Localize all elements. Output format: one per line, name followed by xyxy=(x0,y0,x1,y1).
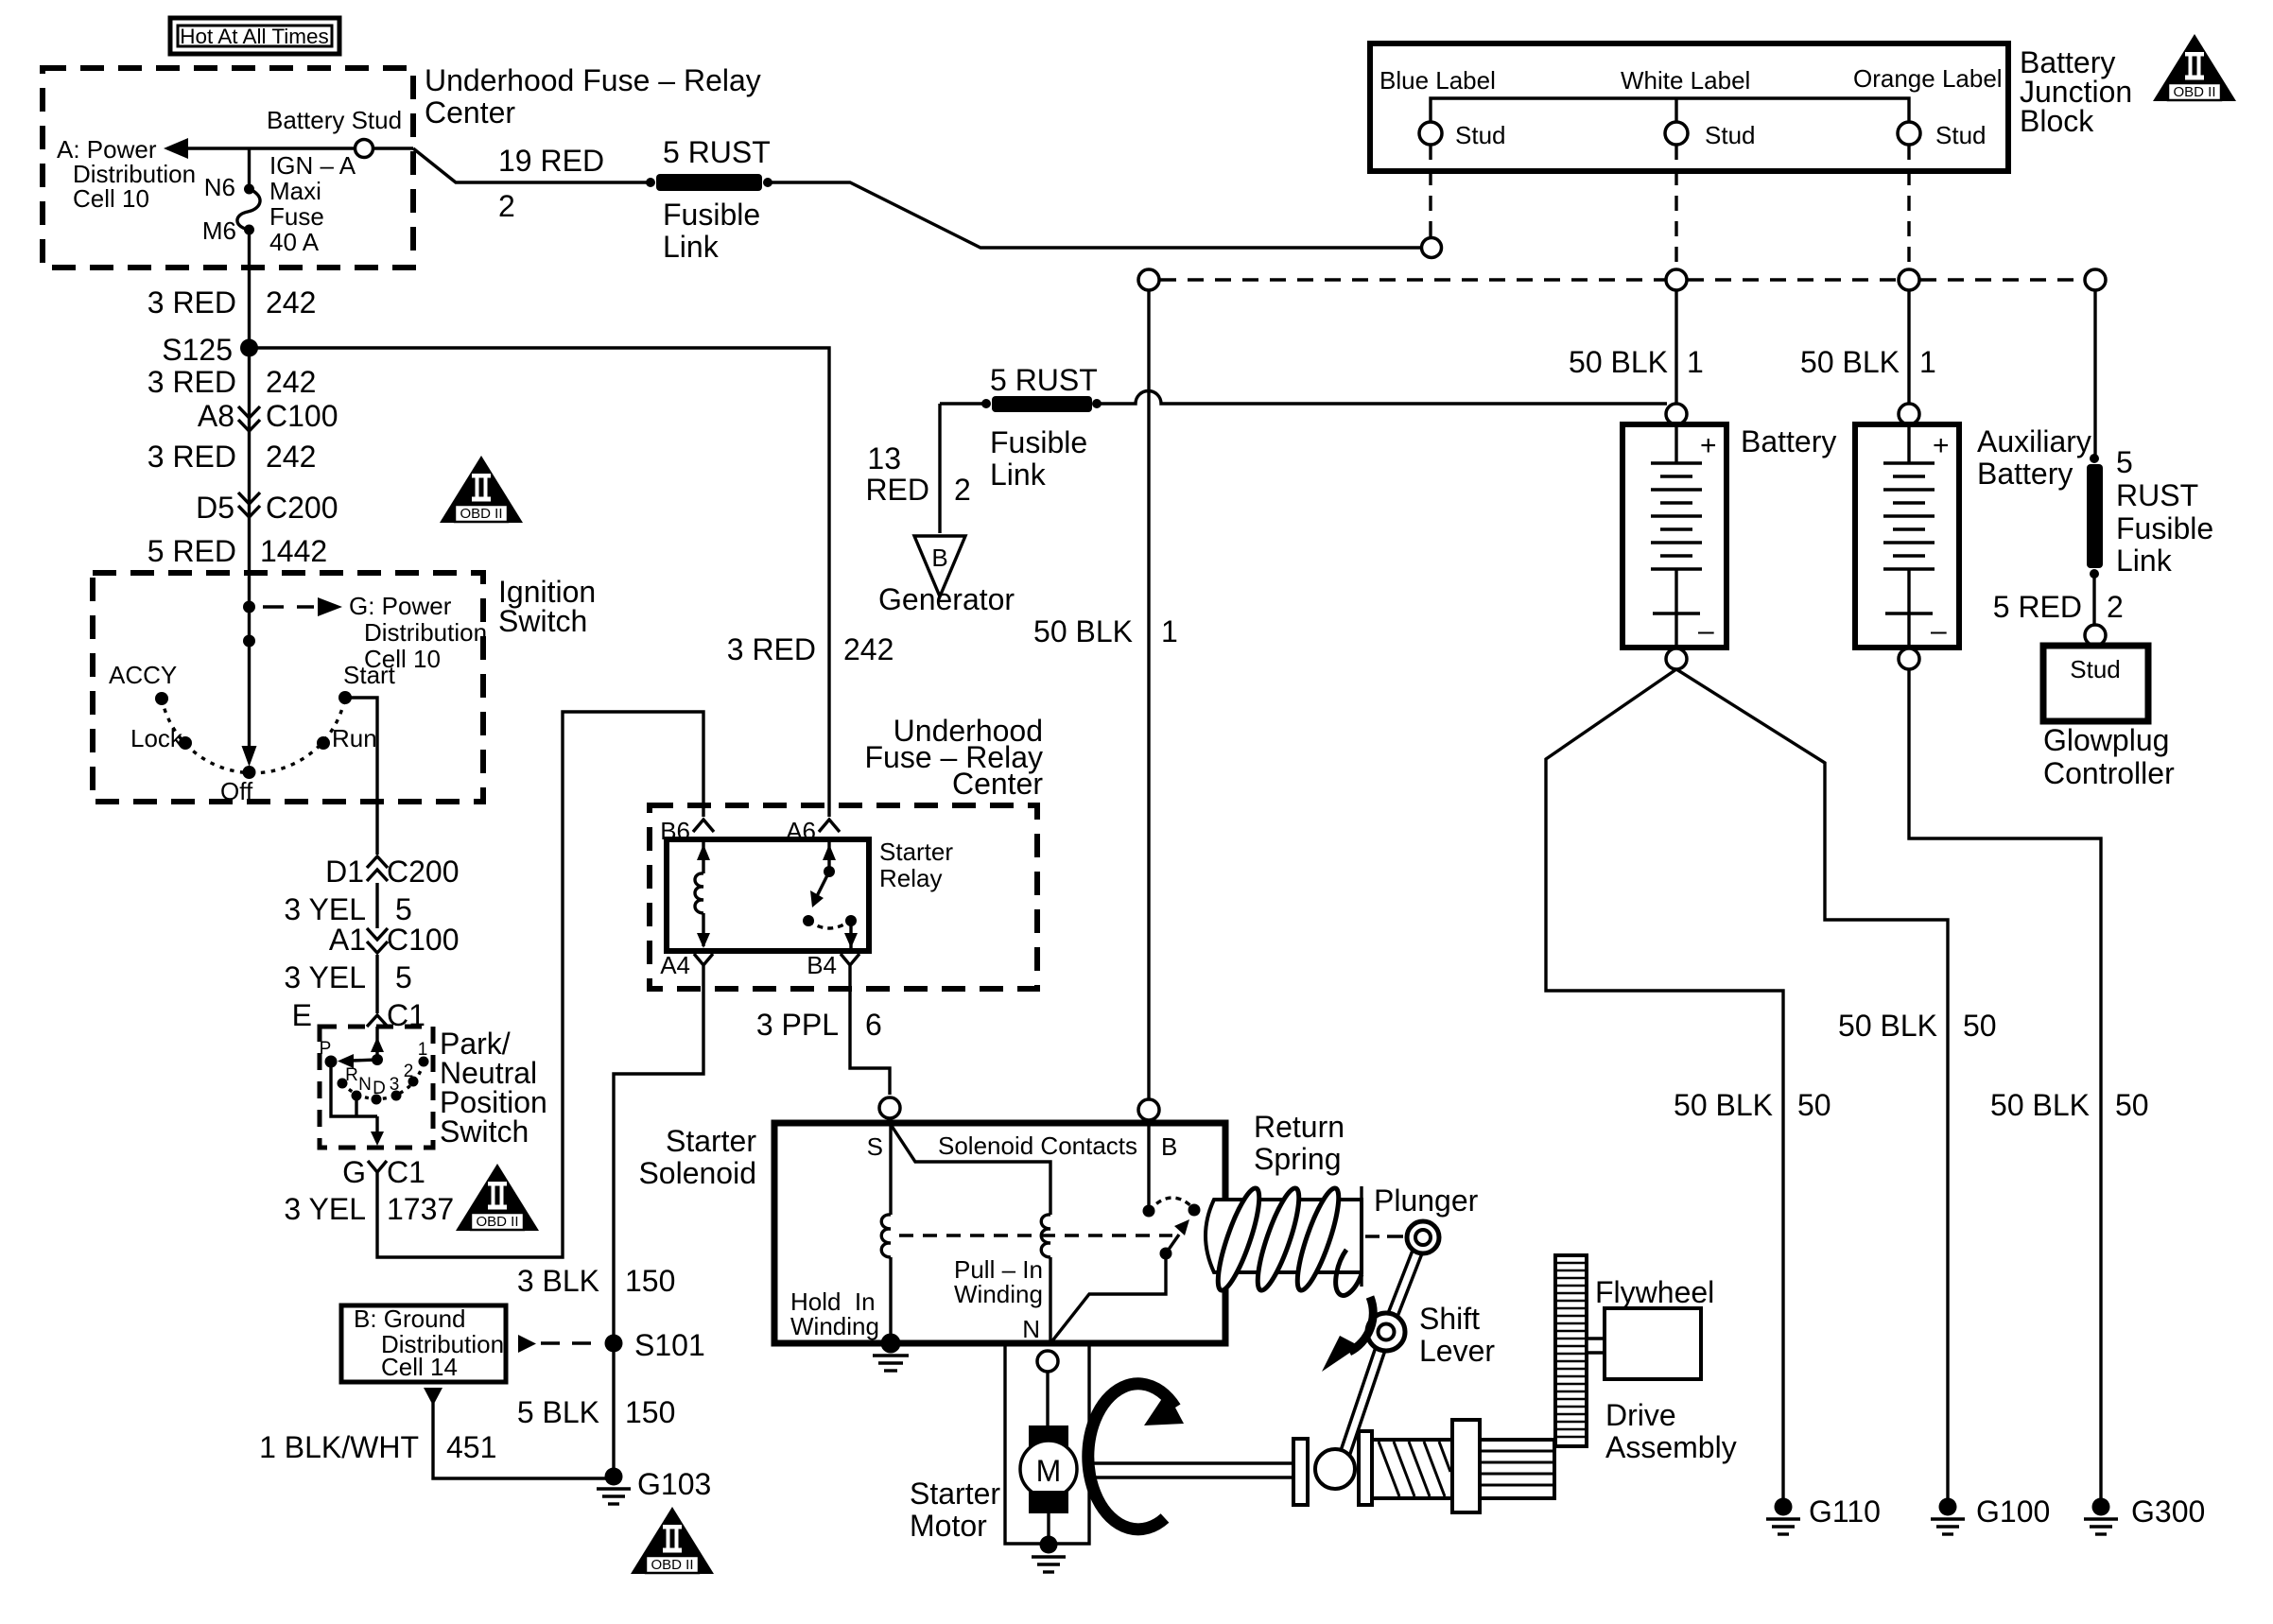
svg-text:3 BLK: 3 BLK xyxy=(517,1264,599,1298)
svg-text:Link: Link xyxy=(663,230,720,264)
shaft collar xyxy=(1359,1431,1372,1505)
wire: generator branch riser xyxy=(938,404,941,533)
connector D5 C200 (double chevron down) xyxy=(238,492,260,517)
return spring coils xyxy=(1210,1184,1362,1295)
svg-text:Glowplug: Glowplug xyxy=(2043,723,2169,757)
connector A6 (chevron up) xyxy=(819,820,840,832)
node 1 xyxy=(419,1057,429,1067)
node S101 xyxy=(605,1335,623,1353)
svg-text:Stud: Stud xyxy=(1705,121,1756,149)
connector E C1 (chevron up) xyxy=(367,1015,388,1027)
box: Battery Junction Block xyxy=(1370,43,2008,171)
svg-text:Stud: Stud xyxy=(2070,655,2121,683)
svg-text:Run: Run xyxy=(332,724,377,752)
svg-text:Flywheel: Flywheel xyxy=(1595,1275,1714,1309)
contact dot left xyxy=(1143,1205,1155,1218)
svg-text:Relay: Relay xyxy=(879,864,942,892)
svg-text:5 RUST: 5 RUST xyxy=(663,135,771,169)
terminal circle S xyxy=(879,1097,900,1118)
svg-text:242: 242 xyxy=(266,285,316,320)
svg-text:Battery: Battery xyxy=(1977,457,2073,491)
junction circle: blue stud to 19 RED xyxy=(1422,238,1442,258)
dashed box: Underhood Fuse-Relay Center (relay) xyxy=(650,805,1037,989)
battery (main) xyxy=(1622,404,1726,669)
node: PN common dot xyxy=(372,1054,383,1065)
solenoid internal ground xyxy=(873,1334,909,1372)
junction circle: orange xyxy=(1899,269,1919,290)
ground G100 xyxy=(1931,1498,1965,1535)
svg-text:40 A: 40 A xyxy=(269,228,320,256)
node 3 xyxy=(391,1091,402,1101)
svg-text:Lock: Lock xyxy=(130,724,183,752)
wire: battery stud to A arrow xyxy=(186,147,355,149)
shaft flange xyxy=(1293,1439,1308,1505)
dashed cable: orange to aux fuse xyxy=(1920,278,2084,281)
svg-text:S101: S101 xyxy=(634,1328,705,1362)
node Off xyxy=(243,766,256,779)
svg-text:Drive: Drive xyxy=(1605,1398,1676,1432)
svg-text:Winding: Winding xyxy=(790,1312,879,1340)
starter solenoid box xyxy=(774,1123,1225,1343)
wire: S125 to A6 xyxy=(250,348,830,817)
svg-text:C200: C200 xyxy=(387,855,460,889)
svg-text:3 PPL: 3 PPL xyxy=(756,1008,839,1042)
node Run xyxy=(317,736,330,750)
fusible link F1 dots xyxy=(646,178,655,187)
svg-text:G: G xyxy=(342,1155,366,1189)
node Lock xyxy=(179,736,192,750)
svg-text:P: P xyxy=(320,1039,332,1059)
dotted arc of ignition positions xyxy=(162,698,345,773)
stud circle (orange) xyxy=(1898,122,1920,145)
svg-text:Fuse: Fuse xyxy=(269,202,324,231)
svg-text:Spring: Spring xyxy=(1254,1142,1342,1176)
svg-text:Start: Start xyxy=(343,661,396,689)
node D xyxy=(372,1095,382,1105)
wire: N to motor xyxy=(1046,1372,1049,1426)
svg-text:3 YEL: 3 YEL xyxy=(284,960,366,994)
splined shaft xyxy=(1480,1440,1554,1498)
rotation arrow xyxy=(1088,1384,1184,1529)
svg-text:1737: 1737 xyxy=(387,1192,454,1226)
svg-text:C200: C200 xyxy=(266,491,338,525)
svg-text:5 RED: 5 RED xyxy=(147,534,236,568)
label: 5 RUST Fusible Link (F2) xyxy=(990,363,1098,492)
label: IGN-A Maxi Fuse 40 A xyxy=(269,151,356,256)
svg-text:242: 242 xyxy=(843,632,894,666)
node M6 xyxy=(244,225,254,235)
node N xyxy=(352,1091,362,1101)
svg-text:G103: G103 xyxy=(637,1467,711,1501)
svg-text:OBD II: OBD II xyxy=(651,1557,693,1573)
svg-text:RUST: RUST xyxy=(2116,478,2198,512)
svg-text:Link: Link xyxy=(990,458,1047,492)
wire: battery negative V-split right branch to G100 xyxy=(1676,669,1948,1498)
node S125 xyxy=(240,339,258,357)
battery (auxiliary) xyxy=(1855,404,1959,669)
terminal circle N xyxy=(1037,1351,1058,1372)
fusible link F3 body (vertical) xyxy=(2087,464,2103,568)
wire: G C1 down right and up to relay B6 xyxy=(377,712,703,1257)
svg-text:1: 1 xyxy=(1687,345,1704,379)
label: 5 RUST Fusible Link (F1) xyxy=(663,135,771,264)
arrow below ground cell box xyxy=(424,1388,442,1406)
svg-text:Generator: Generator xyxy=(878,582,1015,616)
stud circle (white) xyxy=(1665,122,1688,145)
svg-text:Block: Block xyxy=(2020,104,2094,138)
shift lever xyxy=(1342,1221,1439,1463)
dashed lead: blue stud xyxy=(1429,145,1431,236)
node: ignition feed dot 1 xyxy=(243,601,255,613)
starter motor M xyxy=(1020,1425,1077,1536)
svg-text:Shift: Shift xyxy=(1419,1302,1480,1336)
stud circle (blue) xyxy=(1419,122,1442,145)
plunger end plate xyxy=(1360,1186,1362,1287)
svg-text:2: 2 xyxy=(2107,590,2124,624)
svg-text:Stud: Stud xyxy=(1455,121,1506,149)
svg-text:C100: C100 xyxy=(266,399,338,433)
svg-text:OBD II: OBD II xyxy=(2173,84,2215,100)
contact dot right xyxy=(1189,1204,1201,1217)
dashed cable: white to orange xyxy=(1688,278,1898,281)
connector A4 (Y) xyxy=(694,954,713,977)
wire: B terminal to fixed contact xyxy=(1147,1120,1150,1205)
OBD II triangle (top right) xyxy=(2153,34,2236,101)
svg-text:5: 5 xyxy=(395,960,412,994)
fusible link F1 body xyxy=(656,174,762,191)
svg-text:19 RED: 19 RED xyxy=(498,144,604,178)
wire: battery negative V-split left branch to G110 xyxy=(1546,669,1783,1498)
svg-text:Starter: Starter xyxy=(879,838,953,866)
svg-text:3: 3 xyxy=(390,1075,400,1095)
wire: aux battery negative to G300 xyxy=(1909,669,2101,1498)
svg-text:Off: Off xyxy=(220,777,253,805)
hatched drive screw xyxy=(1372,1440,1452,1498)
label: A Power Distribution Cell 10 xyxy=(57,135,196,213)
wire: Start through connectors to park/neutral switch xyxy=(345,698,377,855)
OBD II triangle (G103) xyxy=(631,1507,714,1574)
connector D1 C200 (double chevron up) xyxy=(367,856,388,881)
node P xyxy=(325,1056,338,1068)
svg-text:50: 50 xyxy=(2115,1088,2149,1122)
pull-in winding branch from S xyxy=(890,1123,1050,1343)
svg-text:50 BLK: 50 BLK xyxy=(1800,345,1900,379)
svg-text:Solenoid: Solenoid xyxy=(638,1156,756,1190)
svg-text:RED: RED xyxy=(865,473,929,507)
svg-text:Assembly: Assembly xyxy=(1605,1430,1737,1464)
svg-text:3 RED: 3 RED xyxy=(147,285,236,320)
svg-text:C1: C1 xyxy=(387,1155,425,1189)
connector B4 (Y) xyxy=(841,954,859,977)
svg-text:Battery: Battery xyxy=(1741,424,1836,458)
relay coil branch with arrows xyxy=(695,842,710,948)
svg-text:Maxi: Maxi xyxy=(269,177,321,205)
svg-text:50 BLK: 50 BLK xyxy=(1838,1009,1937,1043)
dashed lead: orange stud xyxy=(1907,145,1910,268)
svg-text:D: D xyxy=(373,1079,386,1098)
wire: P to N stem to output xyxy=(331,1062,377,1116)
svg-text:B: B xyxy=(931,544,947,572)
svg-text:Center: Center xyxy=(425,95,515,130)
svg-text:Return: Return xyxy=(1254,1110,1345,1144)
svg-text:1: 1 xyxy=(1919,345,1936,379)
wire: fusible link 2 left lead xyxy=(940,402,984,405)
relay switch branch xyxy=(803,842,858,948)
dotted arc of PRND321 xyxy=(342,1062,424,1098)
svg-text:Cell 14: Cell 14 xyxy=(381,1353,458,1381)
wire: orange junction to aux battery xyxy=(1907,290,1910,404)
dashed arrow: ground cell to S101 xyxy=(518,1335,536,1353)
svg-text:N6: N6 xyxy=(204,173,235,201)
label: Park/Neutral Position Switch xyxy=(440,1027,547,1149)
svg-text:13: 13 xyxy=(867,441,901,475)
svg-text:3 YEL: 3 YEL xyxy=(284,1192,366,1226)
ground G110 xyxy=(1766,1498,1800,1535)
svg-text:2: 2 xyxy=(954,473,971,507)
svg-text:E: E xyxy=(292,998,312,1032)
svg-text:Motor: Motor xyxy=(910,1509,987,1543)
wiper arm to P with arrowhead xyxy=(352,1060,377,1061)
dashed box: Underhood Fuse-Relay Center (top left) xyxy=(43,68,413,268)
svg-text:1: 1 xyxy=(418,1040,428,1060)
svg-text:M: M xyxy=(1036,1454,1062,1488)
dashed lead: white stud xyxy=(1674,145,1677,268)
terminal circle B xyxy=(1138,1099,1159,1120)
svg-text:Lever: Lever xyxy=(1419,1334,1495,1368)
node: ignition feed dot 2 xyxy=(243,635,255,648)
svg-text:Center: Center xyxy=(952,767,1043,801)
label: Battery Junction Block xyxy=(2020,45,2132,138)
wire: fusible link to glowplug stud xyxy=(2092,574,2095,625)
svg-text:5 RED: 5 RED xyxy=(1993,590,2082,624)
svg-text:5 RUST: 5 RUST xyxy=(990,363,1098,397)
svg-text:B: B xyxy=(1161,1132,1177,1161)
label: G Power Distribution Cell 10 xyxy=(349,592,487,673)
box: glowplug controller stud xyxy=(2043,646,2148,721)
connector B triangle (generator) xyxy=(914,536,965,596)
node R xyxy=(338,1079,348,1089)
svg-text:S: S xyxy=(867,1132,883,1161)
ball joint xyxy=(1315,1449,1355,1489)
svg-text:Orange Label: Orange Label xyxy=(1853,64,2003,93)
svg-text:Controller: Controller xyxy=(2043,756,2175,790)
svg-text:Link: Link xyxy=(2116,544,2173,578)
svg-text:Cell 10: Cell 10 xyxy=(73,184,149,213)
ground G103 xyxy=(597,1468,631,1505)
svg-text:A1: A1 xyxy=(329,923,366,957)
svg-text:150: 150 xyxy=(625,1395,675,1429)
wire: fusible link to battery junction circle xyxy=(772,182,1421,248)
svg-text:150: 150 xyxy=(625,1264,675,1298)
wire: far right junction to aux fusible link xyxy=(2093,290,2096,456)
svg-text:6: 6 xyxy=(865,1008,882,1042)
svg-text:Distribution: Distribution xyxy=(364,618,487,647)
fusible link F2 dots xyxy=(981,399,991,408)
fusible link F3 dots xyxy=(2090,454,2099,463)
svg-text:3 RED: 3 RED xyxy=(147,365,236,399)
svg-text:Fusible: Fusible xyxy=(663,198,760,232)
label: Underhood Fuse-Relay Center (relay) xyxy=(864,714,1043,801)
wire: stud wire down to N6 xyxy=(248,148,251,186)
wire: ignition wiper arm with arrow xyxy=(248,601,251,752)
svg-text:R: R xyxy=(345,1065,358,1085)
glowplug stud circle xyxy=(2085,625,2106,646)
svg-text:50: 50 xyxy=(1963,1009,1997,1043)
ground G300 xyxy=(2084,1498,2118,1535)
svg-text:C100: C100 xyxy=(387,923,460,957)
motor shaft xyxy=(1089,1463,1293,1477)
connector A8 C100 (double chevron down) xyxy=(238,406,260,431)
svg-text:G: Power: G: Power xyxy=(349,592,452,620)
connector A1 C100 (double chevron down) xyxy=(367,928,388,953)
wire: white junction to battery xyxy=(1674,290,1677,404)
svg-text:N: N xyxy=(1022,1315,1040,1343)
svg-text:B4: B4 xyxy=(807,951,837,979)
svg-text:D1: D1 xyxy=(325,855,364,889)
svg-text:242: 242 xyxy=(266,365,316,399)
fusible link F2 body xyxy=(992,396,1092,412)
svg-text:Auxiliary: Auxiliary xyxy=(1977,424,2091,458)
svg-text:50 BLK: 50 BLK xyxy=(1674,1088,1773,1122)
wire: M6 down through S125 to ignition switch xyxy=(248,230,251,601)
svg-text:1 BLK/WHT: 1 BLK/WHT xyxy=(259,1430,419,1464)
svg-text:Starter: Starter xyxy=(910,1477,1000,1511)
wire: fusible link 2 to battery (hop over 50 BLK wire) xyxy=(1101,391,1667,405)
bus bar inside junction block xyxy=(1431,98,1909,122)
svg-text:Starter: Starter xyxy=(666,1124,756,1158)
node N6 xyxy=(244,184,254,195)
svg-text:ACCY: ACCY xyxy=(109,661,177,689)
wire: output with arrow to G C1 xyxy=(375,1116,378,1132)
connector G C1 (Y) xyxy=(368,1161,387,1183)
svg-text:451: 451 xyxy=(446,1430,496,1464)
svg-text:G110: G110 xyxy=(1809,1494,1881,1529)
contact pivot dot xyxy=(1160,1248,1172,1260)
dashed contact arc xyxy=(1149,1198,1194,1211)
svg-text:1: 1 xyxy=(1161,614,1178,648)
svg-text:3 RED: 3 RED xyxy=(147,440,236,474)
svg-text:OBD II: OBD II xyxy=(460,506,502,522)
wire: 1 BLK/WHT to G103 xyxy=(433,1403,614,1478)
curved arrow at shift lever xyxy=(1322,1297,1373,1372)
svg-text:3 YEL: 3 YEL xyxy=(284,892,366,926)
svg-text:2: 2 xyxy=(404,1062,414,1081)
wire: battery stud to box edge xyxy=(373,147,413,149)
svg-text:Plunger: Plunger xyxy=(1374,1183,1479,1218)
battery stud circle xyxy=(356,140,373,158)
moving contact arm with arrow xyxy=(1166,1235,1179,1253)
svg-text:OBD II: OBD II xyxy=(476,1214,518,1230)
svg-text:S125: S125 xyxy=(162,333,233,367)
hold-in winding branch xyxy=(881,1123,891,1343)
svg-text:A8: A8 xyxy=(198,399,234,433)
OBD II triangle (park/neutral) xyxy=(456,1164,539,1231)
dashed box: Ignition Switch xyxy=(93,573,483,802)
svg-text:B: Ground: B: Ground xyxy=(354,1304,466,1333)
motor ground xyxy=(1032,1536,1066,1573)
wire: N to moving contact xyxy=(1050,1259,1166,1343)
wire: 50 BLK 1 vertical to solenoid B xyxy=(1147,290,1150,1099)
arrow into park/neutral common xyxy=(371,1037,384,1052)
svg-text:Battery Stud: Battery Stud xyxy=(267,106,402,134)
svg-text:Winding: Winding xyxy=(954,1280,1043,1308)
wire: B4 to solenoid S terminal xyxy=(850,977,890,1095)
svg-text:2: 2 xyxy=(498,189,515,223)
label: Underhood Fuse-Relay Center xyxy=(425,63,761,130)
Hot At All Times box xyxy=(170,18,339,54)
svg-text:M6: M6 xyxy=(202,216,236,245)
svg-text:50 BLK: 50 BLK xyxy=(1033,614,1133,648)
svg-text:5 BLK: 5 BLK xyxy=(517,1395,599,1429)
svg-text:Stud: Stud xyxy=(1935,121,1987,149)
svg-text:Hot At All Times: Hot At All Times xyxy=(180,25,329,48)
svg-text:3 RED: 3 RED xyxy=(727,632,816,666)
OBD II triangle (left middle) xyxy=(440,456,523,523)
connector B6 (chevron up) xyxy=(693,820,714,832)
svg-text:IGN – A: IGN – A xyxy=(269,151,356,180)
flywheel ring gear xyxy=(1555,1255,1587,1446)
svg-text:Switch: Switch xyxy=(498,604,587,638)
svg-text:5: 5 xyxy=(2116,445,2133,479)
svg-text:50 BLK: 50 BLK xyxy=(1990,1088,2090,1122)
link plunger to shift lever xyxy=(1365,1235,1403,1237)
svg-text:G100: G100 xyxy=(1976,1494,2050,1529)
flywheel hub box xyxy=(1605,1308,1701,1379)
svg-text:N: N xyxy=(358,1075,372,1095)
svg-text:A4: A4 xyxy=(660,951,690,979)
svg-text:Underhood Fuse – Relay: Underhood Fuse – Relay xyxy=(425,63,761,97)
wire: 19 RED from box to fusible link xyxy=(413,148,649,182)
junction circle: far right xyxy=(2085,269,2106,290)
dashed arrow to G: Power Distribution xyxy=(263,597,342,616)
wire: A4 down to S101/G103 xyxy=(614,977,703,1470)
svg-text:50: 50 xyxy=(1797,1088,1831,1122)
mechanical dashed link xyxy=(899,1234,1172,1236)
svg-text:Solenoid Contacts: Solenoid Contacts xyxy=(938,1132,1137,1160)
svg-text:G300: G300 xyxy=(2131,1494,2205,1529)
svg-text:242: 242 xyxy=(266,440,316,474)
box: B Ground Distribution Cell 14 xyxy=(341,1305,506,1382)
svg-text:5: 5 xyxy=(395,892,412,926)
node Start xyxy=(338,691,352,704)
arrowhead to Off xyxy=(242,746,257,767)
svg-text:Fusible: Fusible xyxy=(2116,511,2213,545)
svg-text:White Label: White Label xyxy=(1621,66,1750,95)
starter motor frame xyxy=(1005,1345,1089,1544)
drive collar xyxy=(1452,1420,1480,1512)
plunger body xyxy=(1206,1200,1362,1272)
svg-text:Blue Label: Blue Label xyxy=(1379,66,1496,95)
dashed box: Park/Neutral Position Switch xyxy=(320,1027,433,1148)
svg-text:Fusible: Fusible xyxy=(990,425,1087,459)
junction circle: white xyxy=(1666,269,1687,290)
svg-text:D5: D5 xyxy=(196,491,234,525)
flywheel hub link xyxy=(1587,1339,1605,1353)
arrow to A: Power Distribution xyxy=(164,138,188,159)
svg-text:Switch: Switch xyxy=(440,1114,529,1149)
node 2 xyxy=(408,1077,419,1087)
maxi fuse element xyxy=(237,189,260,230)
junction circle: cable junction left xyxy=(1138,269,1159,290)
svg-text:1442: 1442 xyxy=(260,534,327,568)
svg-text:50 BLK: 50 BLK xyxy=(1569,345,1668,379)
label: 5 RUST Fusible Link (F3) xyxy=(2116,445,2213,578)
starter relay box xyxy=(667,839,869,951)
node ACCY xyxy=(155,692,168,705)
dashed cable: junction to white stud circle xyxy=(1160,278,1665,281)
